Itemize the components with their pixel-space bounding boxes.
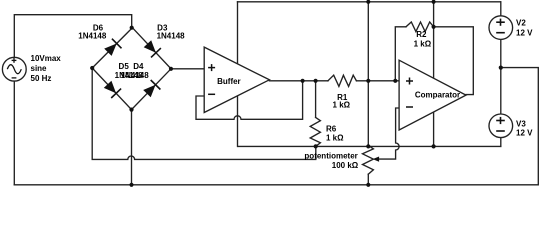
node ground rail at bridge [129,183,133,187]
node R2 right / V+ pin [432,25,436,29]
DC source V2 [489,16,533,40]
node bridge top [130,26,134,30]
svg-text:V2: V2 [516,18,526,27]
svg-text:1N4148: 1N4148 [78,32,107,41]
bridge diamond edges [92,28,171,110]
node top rail at comparator pin [432,0,436,4]
svg-text:1 kΩ: 1 kΩ [414,39,432,48]
svg-text:100 kΩ: 100 kΩ [332,161,359,170]
svg-text:D5 D4: D5 D4 [119,62,144,71]
resistor R1 zigzag [328,75,357,86]
op-amp U2 Comparator [399,60,466,130]
diode D3 [144,40,161,57]
wire comparator V- pin [433,112,435,146]
node -12V rail at comparator pin [432,144,436,148]
node comparator + input [393,79,397,83]
wire V3 bottom lead [500,138,502,147]
wire R2 left lead from + input node [395,27,406,81]
node bridge right [169,67,173,71]
svg-text:V3: V3 [516,119,526,128]
wire V1 bottom to ground rail [13,81,15,185]
svg-text:12 V: 12 V [516,129,533,138]
resistor R6 zigzag [310,117,320,146]
wire buffer V+ pin [237,2,239,64]
wire R1 right to comparator [357,80,400,82]
diode D4 [143,80,160,97]
svg-text:50 Hz: 50 Hz [31,74,52,83]
svg-text:10Vmax: 10Vmax [31,54,62,63]
svg-text:Comparator: Comparator [415,90,460,99]
label potentiometer [304,152,358,170]
wire bridge bottom vertex to ground rail [131,110,133,185]
wire comparator V+ pin [433,2,435,78]
diode D6 [104,39,121,56]
wire bridge right vertex to buffer + input [171,68,204,70]
potentiometer wiper arrow [373,157,380,162]
node -12V rail at pot [366,144,370,148]
wire V2 bottom to mid node [500,40,502,68]
node -12V rail at R6 [314,144,318,148]
wire R2 right to comparator output [434,27,474,95]
label R2 [414,30,432,48]
node R6 top [314,79,318,83]
resistor R2 zigzag [406,22,434,32]
op-amp U1 Buffer [204,47,269,112]
wire V2 top lead [500,2,502,16]
svg-text:Buffer: Buffer [217,77,241,86]
wire top +12V rail [238,1,501,3]
svg-text:1 kΩ: 1 kΩ [326,134,344,143]
wire potentiometer wiper to comparator - input [379,108,400,159]
wire bottom ground rail [14,68,538,185]
label D3 [157,23,186,40]
svg-text:potentiometer: potentiometer [304,152,357,161]
svg-text:R2: R2 [416,30,427,39]
svg-text:1N4148: 1N4148 [157,32,186,41]
DC source V3 [489,114,533,138]
label D5 D4 [115,62,150,80]
label R6 [326,125,344,143]
node top rail at pot column [366,0,370,4]
wire top-left rail from V1 to bridge top [14,15,131,58]
wire R6 top lead [315,81,317,118]
svg-text:1 kΩ: 1 kΩ [333,101,351,110]
wire -12V rail [238,145,501,147]
node buffer output feedback [301,79,305,83]
node bridge left [90,66,94,70]
node V2-V3 midpoint [499,66,503,70]
svg-text:12 V: 12 V [516,29,533,38]
wire V3 top lead [500,68,502,115]
AC source V1 [2,54,61,83]
wire buffer V- pin [237,96,239,147]
wire buffer output to comparator + input [269,80,328,82]
node signal wire at pot column [366,79,370,83]
potentiometer zigzag [363,145,374,174]
svg-text:R6: R6 [326,125,337,134]
diode D5 [104,81,121,98]
label D6 [78,23,107,40]
node ground rail at potentiometer [366,183,370,187]
node bridge bottom [129,108,133,112]
wire potentiometer bottom lead [367,174,369,185]
wire +12V rail down through signal node to potentiometer [367,2,369,146]
wire buffer feedback output to inverting input [196,81,303,120]
svg-text:sine: sine [31,64,48,73]
svg-text:1N4148: 1N4148 [121,71,150,80]
wire bridge left vertex down and right to R6 bottom node [92,68,316,159]
label R1 [333,93,351,110]
